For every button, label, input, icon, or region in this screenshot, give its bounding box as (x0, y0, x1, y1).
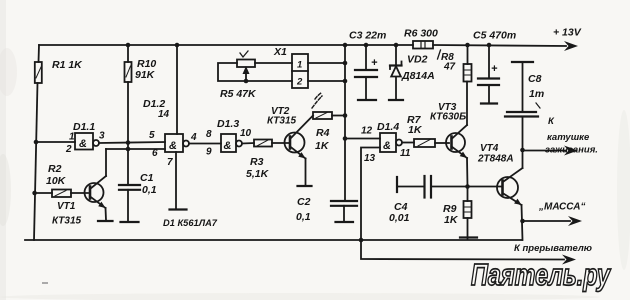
svg-text:C5 470m: C5 470m (473, 30, 516, 42)
node squiggle mark above R4 (312, 93, 322, 108)
node junction rail R8 (465, 43, 470, 48)
svg-text:1: 1 (69, 132, 75, 143)
resistor R8 (464, 45, 472, 82)
node junction center top (343, 43, 348, 48)
node junction МАССА (520, 219, 525, 224)
svg-text:14: 14 (158, 109, 170, 120)
svg-text:„МАССА“: „МАССА“ (538, 202, 585, 213)
svg-text:катушке: катушке (547, 132, 590, 143)
wire R4 to center rail (332, 115, 345, 117)
node junction R10/C1 upper (126, 140, 131, 145)
svg-text:47: 47 (443, 62, 456, 73)
wire R7 to VT3 base (435, 142, 449, 144)
node junction D1.1 input (34, 140, 39, 145)
capacitor C3 (355, 45, 378, 100)
svg-text:0,01: 0,01 (389, 212, 410, 224)
wire R3 to VT2 base (272, 142, 289, 144)
wire center vertical rail (344, 45, 346, 201)
svg-text:13: 13 (364, 153, 376, 164)
svg-text:6: 6 (152, 148, 158, 159)
svg-text:5: 5 (149, 130, 155, 141)
svg-text:1m: 1m (529, 88, 544, 100)
wire arrow to ignition coil (523, 150, 567, 152)
wire R5 to X1 pin1 (255, 62, 292, 64)
svg-text:R5 47K: R5 47K (220, 88, 257, 100)
node junction VT3 emitter / VT4 base (465, 184, 470, 189)
svg-text:Паятель.ру: Паятель.ру (471, 257, 611, 292)
svg-text:К прерывателю: К прерывателю (514, 243, 592, 254)
capacitor C5 (478, 45, 499, 104)
node junction X1 pin1 (343, 61, 348, 66)
svg-text:1K: 1K (315, 140, 330, 152)
wire R10 bottom / C1 top (127, 82, 129, 185)
node junction rail VD2 (394, 43, 399, 48)
svg-text:1: 1 (297, 60, 302, 71)
logic gate D1.1 (75, 133, 99, 150)
svg-text:VT1: VT1 (57, 201, 76, 212)
svg-text:R6 300: R6 300 (404, 28, 438, 40)
svg-text:+ 13V: + 13V (553, 27, 582, 39)
svg-text:7: 7 (167, 157, 173, 168)
wire arrow МАССА (523, 220, 571, 222)
wire D1.4 output to R7 (402, 142, 414, 144)
svg-text:&: & (383, 140, 391, 152)
node junction R10/C1 lower (126, 147, 131, 152)
wire VT1 collector to D1.2 pin6 (106, 148, 165, 150)
node junction pin13 bus (359, 238, 364, 243)
logic gate D1.3 (221, 134, 242, 152)
transistor VT2 (285, 116, 314, 187)
node junction pin12 (343, 136, 348, 141)
svg-text:R2: R2 (48, 163, 62, 175)
resistor R6 (413, 41, 433, 49)
logic gate D1.4 (380, 133, 402, 152)
wire top +13V rail right segment with arrow to +13V (433, 45, 566, 46)
wire bus to breaker arrow (361, 240, 564, 260)
svg-text:R1 1K: R1 1K (52, 59, 83, 71)
svg-text:1K: 1K (444, 214, 459, 226)
svg-text:VT4: VT4 (480, 143, 499, 154)
node junction coil arrow (520, 148, 525, 153)
svg-text:C1: C1 (140, 172, 154, 184)
svg-text:C2: C2 (297, 196, 311, 208)
svg-text:зажигания.: зажигания. (545, 145, 598, 156)
node scan speck above R5 (240, 51, 248, 57)
node junction rail R10 (126, 43, 131, 48)
svg-text:D1.4: D1.4 (377, 121, 399, 133)
node junction rail C5 (487, 43, 492, 48)
connector X1 (292, 54, 308, 88)
svg-text:+: + (491, 63, 498, 75)
svg-text:X1: X1 (273, 46, 287, 58)
svg-text:10: 10 (240, 128, 252, 139)
capacitor C8 (505, 62, 538, 150)
svg-text:4: 4 (190, 132, 197, 143)
svg-text:11: 11 (400, 148, 411, 159)
transistor VT1 (85, 149, 113, 221)
wire R10 top lead (127, 45, 129, 62)
svg-text:1K: 1K (408, 124, 423, 136)
wire left vertical rail (38, 45, 41, 62)
svg-text:D1.1: D1.1 (73, 121, 95, 133)
svg-text:91K: 91K (135, 69, 156, 81)
svg-text:D1.3: D1.3 (217, 118, 239, 130)
resistor R3 (254, 140, 272, 147)
svg-text:Д814А: Д814А (401, 70, 435, 82)
wire R5 bottom to X1 pin2 (246, 80, 292, 82)
resistor R7 (414, 139, 435, 147)
svg-text:8: 8 (206, 129, 212, 140)
wire D1.1 input (36, 141, 75, 143)
svg-text:2Т848А: 2Т848А (477, 154, 514, 165)
svg-text:C3 22m: C3 22m (349, 30, 386, 42)
svg-text:&: & (169, 140, 177, 152)
wire D1.2 pin14 power (176, 45, 178, 134)
svg-text:2: 2 (65, 144, 72, 155)
wire bottom common bus (25, 239, 522, 241)
resistor R5 trimmer (218, 60, 255, 82)
capacitor C4 (397, 176, 501, 198)
node junction R4 (343, 113, 348, 118)
wire D1.3 output to R3 (242, 142, 254, 145)
node junction rail C3 (364, 43, 369, 48)
node junction R5 wiper (244, 79, 249, 84)
svg-text:2: 2 (296, 77, 303, 88)
wire R2 to VT1 base (71, 192, 88, 194)
wire X1 pin2 to center (308, 80, 345, 82)
capacitor C1 (119, 185, 140, 222)
wire D1.4 pin12 (345, 138, 380, 140)
diode VD2 zener (389, 45, 403, 100)
wire D1.2 output to D1.3 (189, 143, 221, 145)
wire D1.2 pin7 ground (175, 152, 177, 208)
node scan speck bottom left (42, 282, 48, 284)
resistor R9 (460, 187, 477, 240)
svg-text:0,1: 0,1 (142, 184, 157, 196)
svg-text:9: 9 (206, 147, 212, 158)
resistor R1 (35, 62, 42, 83)
svg-text:VD2: VD2 (407, 54, 428, 66)
logic gate D1.2 (165, 134, 189, 152)
svg-text:C8: C8 (528, 73, 542, 85)
node junction rail pin14 (175, 43, 180, 48)
capacitor C2 (331, 201, 357, 222)
svg-text:3: 3 (99, 131, 105, 142)
resistor R2 (52, 190, 71, 198)
svg-text:D1 К561ЛА7: D1 К561ЛА7 (163, 218, 218, 228)
wire D1.4 pin13 from bus (361, 148, 380, 241)
transistor VT3 (446, 82, 468, 187)
node junction R2 (32, 191, 37, 196)
node scan speck slash before R8 (438, 50, 441, 59)
node scan speck near C8 (536, 103, 540, 108)
resistor R4 (313, 112, 332, 119)
resistor R10 (125, 62, 132, 82)
svg-text:10K: 10K (46, 175, 67, 187)
wire R2 left lead (35, 192, 52, 194)
svg-text:R4: R4 (316, 127, 330, 139)
svg-text:КТ630Б: КТ630Б (430, 112, 466, 123)
svg-text:R3: R3 (250, 156, 264, 168)
wire D1.1 output to D1.2 pin5 (99, 142, 165, 143)
svg-text:КТ315: КТ315 (267, 116, 297, 127)
node junction X1 pin2 (343, 79, 348, 84)
svg-text:&: & (79, 138, 87, 150)
transistor VT4 (497, 150, 523, 240)
wire X1 pin1 to center (308, 62, 345, 64)
svg-text:&: & (224, 140, 232, 152)
svg-text:+: + (371, 57, 378, 69)
svg-text:12: 12 (361, 126, 373, 137)
wire top +13V rail left segment (39, 44, 413, 46)
node arrowhead breaker bus (562, 255, 576, 265)
svg-text:0,1: 0,1 (296, 211, 311, 223)
node arrowhead +13V (564, 41, 578, 51)
svg-text:КТ315: КТ315 (52, 216, 82, 227)
svg-text:5,1K: 5,1K (246, 168, 270, 180)
